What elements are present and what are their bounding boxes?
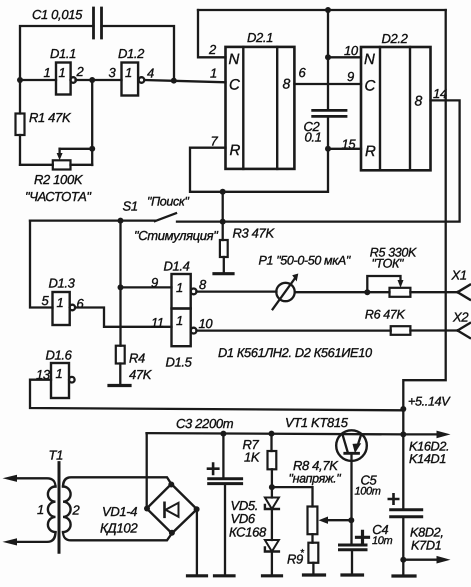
svg-text:1: 1 <box>44 65 51 80</box>
plus C3 <box>208 464 218 474</box>
node reset bus tap <box>220 189 226 195</box>
svg-text:3: 3 <box>109 65 117 80</box>
wire meter to R5 <box>295 291 390 293</box>
svg-text:9: 9 <box>151 275 158 290</box>
svg-text:VD1-4: VD1-4 <box>102 504 137 519</box>
svg-text:R2 100K: R2 100K <box>34 172 84 187</box>
svg-text:100m: 100m <box>355 486 381 498</box>
svg-text:9: 9 <box>347 69 354 84</box>
wire secondary top lead to bridge <box>63 477 171 486</box>
svg-text:47K: 47K <box>129 367 153 382</box>
node bridge right <box>194 506 200 512</box>
svg-text:1: 1 <box>59 65 66 80</box>
ground main <box>393 574 415 577</box>
svg-text:Р1 "50-0-50 мкА": Р1 "50-0-50 мкА" <box>259 254 351 268</box>
svg-text:1: 1 <box>37 502 44 517</box>
wire R7 node to R8 <box>272 487 313 506</box>
connector X1 <box>458 285 471 300</box>
resistor R4 <box>116 346 125 364</box>
wire primary bottom lead <box>12 532 56 542</box>
wire D1.5 out to R6 <box>197 329 391 331</box>
node R5 left junction <box>364 289 370 295</box>
capacitor C3 <box>222 434 224 478</box>
inverter D1.4 <box>172 274 191 309</box>
svg-text:R: R <box>230 142 241 159</box>
svg-text:"Поиск": "Поиск" <box>147 195 189 209</box>
wire S1 node down to R4 <box>119 221 121 346</box>
zener VD6 <box>265 540 279 552</box>
node ground out junction <box>400 557 406 563</box>
label C1 value <box>32 7 83 22</box>
svg-text:K14D1: K14D1 <box>409 452 446 466</box>
wire R1 bottom to R2 <box>20 164 92 166</box>
svg-text:D1.3: D1.3 <box>49 276 76 291</box>
capacitor C4 <box>340 545 367 550</box>
switch S1 <box>30 213 176 221</box>
node supply to bottom rail <box>400 406 406 412</box>
svg-text:КС168: КС168 <box>229 525 267 540</box>
svg-text:11: 11 <box>151 315 164 330</box>
node R1 top junction <box>17 77 23 83</box>
svg-text:1: 1 <box>56 366 63 381</box>
svg-text:1: 1 <box>176 313 183 328</box>
wire D1.3 input from S1 left <box>30 221 53 308</box>
wire N pin D2.2 <box>328 56 361 58</box>
resistor R1 <box>19 80 21 165</box>
wire pin9 input <box>121 286 172 288</box>
ground C4 <box>342 573 363 576</box>
wire emitter down <box>350 453 352 544</box>
inverter D1.2 <box>122 63 139 96</box>
node bridge left <box>144 506 150 512</box>
node C2 bottom junction <box>325 146 331 152</box>
svg-text:D1.5: D1.5 <box>166 355 193 370</box>
svg-text:2: 2 <box>72 503 81 518</box>
svg-text:*: * <box>300 548 305 559</box>
diode symbol inside bridge <box>163 503 166 517</box>
svg-text:10: 10 <box>199 316 214 331</box>
wire R5 wiper loop <box>367 276 400 292</box>
arrow supply out K16D2 <box>403 433 438 435</box>
resistor R9 <box>308 543 318 563</box>
wire R6 to X2 <box>410 329 457 331</box>
winding 2 secondary <box>63 487 71 533</box>
plus C5 <box>389 494 398 503</box>
svg-text:D1.6: D1.6 <box>46 348 73 363</box>
svg-text:1: 1 <box>176 280 183 295</box>
svg-text:2: 2 <box>208 42 217 57</box>
wire C5 to ground <box>402 517 404 575</box>
svg-text:1: 1 <box>125 65 132 80</box>
counter D2.1 <box>226 47 295 169</box>
svg-text:0.1: 0.1 <box>305 130 322 145</box>
wire pin14 output bus <box>177 100 460 221</box>
svg-text:1: 1 <box>57 295 64 310</box>
inverter D1.3 <box>53 292 70 325</box>
resistor R3 <box>220 240 228 257</box>
ground bridge <box>188 574 207 577</box>
svg-text:1: 1 <box>210 66 217 81</box>
svg-text:КД102: КД102 <box>100 521 138 536</box>
plus C4 <box>357 531 369 543</box>
meter P1 <box>276 283 294 301</box>
wire right supply rail <box>403 10 445 508</box>
wire D1.1 output to R2 wiper branch <box>91 80 93 165</box>
node pin9 branch <box>118 284 124 290</box>
wire R5 to X1 <box>410 291 457 293</box>
transformer T1 core <box>58 463 61 553</box>
node switch bus crossing <box>220 219 226 225</box>
resistor R6 <box>391 326 411 335</box>
wire secondary bottom lead to bridge <box>63 532 172 540</box>
connector X2 <box>458 323 471 338</box>
capacitor C5 <box>391 510 422 517</box>
wire bridge left up to rail <box>146 433 148 508</box>
node C3 top <box>220 431 226 437</box>
node R8 wiper to emitter line <box>348 517 354 523</box>
svg-text:D1.4: D1.4 <box>164 259 190 274</box>
wire reset tap down to R3 <box>222 192 224 240</box>
zener VD5 <box>271 487 273 497</box>
ground R9 <box>304 573 325 576</box>
resistor R7 <box>270 434 272 451</box>
svg-text:C: C <box>229 77 240 94</box>
potentiometer R8 <box>308 507 318 535</box>
svg-text:R6 47K: R6 47K <box>365 308 406 322</box>
transistor VT1 <box>336 430 367 461</box>
svg-text:"Стимуляция": "Стимуляция" <box>134 228 219 243</box>
svg-text:D2.1: D2.1 <box>247 30 273 45</box>
node bridge top <box>168 482 174 488</box>
arrow ground out K8D2 <box>403 559 438 561</box>
winding 1 primary <box>48 487 56 533</box>
counter D2.2 <box>361 47 431 170</box>
wire D1.3 out to pin11 <box>75 308 171 327</box>
svg-text:1K: 1K <box>244 450 261 465</box>
wire collector rail C3 <box>147 433 404 434</box>
svg-text:8: 8 <box>199 277 207 292</box>
svg-text:N: N <box>229 51 240 68</box>
svg-text:X2: X2 <box>452 310 469 325</box>
svg-text:D1.2: D1.2 <box>118 46 145 61</box>
wire D1.4 out to meter <box>197 290 277 292</box>
wire D1.6 input to bottom rail <box>30 380 403 411</box>
node R2 wiper junction <box>89 146 95 152</box>
wire R8 to R9 <box>311 534 313 543</box>
ground R3 <box>214 272 233 275</box>
svg-text:VT1 KT815: VT1 KT815 <box>285 415 349 430</box>
svg-text:10m: 10m <box>372 535 393 547</box>
node R7 top <box>269 431 275 437</box>
svg-text:5: 5 <box>42 293 50 308</box>
svg-text:K7D1: K7D1 <box>411 539 441 553</box>
svg-text:8: 8 <box>283 76 291 92</box>
node collector rail junction <box>400 431 406 437</box>
svg-text:R3 47K: R3 47K <box>233 226 276 241</box>
node N D2.2 junction <box>325 54 331 60</box>
wire D2.1 out pin6 to D2.2 pin9 <box>294 83 361 85</box>
svg-text:S1: S1 <box>123 199 138 214</box>
inverter D1.6 <box>51 363 69 398</box>
capacitor C2 <box>313 110 346 116</box>
svg-text:8: 8 <box>415 93 423 109</box>
label chips <box>218 345 373 360</box>
wire reset bus R pins <box>190 116 361 191</box>
node R7 bottom <box>269 484 275 490</box>
svg-text:+5..14V: +5..14V <box>408 395 451 409</box>
svg-text:10: 10 <box>344 43 359 58</box>
svg-text:2: 2 <box>76 64 85 79</box>
wire bridge right to ground <box>196 509 198 575</box>
ground C3 <box>215 574 235 577</box>
ground VD6 <box>263 574 282 577</box>
node D1.1 output junction <box>89 77 95 83</box>
potentiometer R2 <box>53 160 71 169</box>
wire N pin D2.1 <box>198 10 226 57</box>
svg-text:D1.1: D1.1 <box>50 46 76 61</box>
wire main oscillator line <box>20 80 226 82</box>
svg-text:R4: R4 <box>129 351 145 366</box>
svg-text:7: 7 <box>211 134 219 149</box>
svg-text:"ТОК": "ТОК" <box>372 257 404 271</box>
wire C1 top loop <box>20 26 174 81</box>
capacitor C1 <box>94 8 102 38</box>
svg-text:D2.2: D2.2 <box>382 31 409 46</box>
svg-text:4: 4 <box>147 66 154 81</box>
ground R4 <box>109 384 130 387</box>
svg-text:C1 0,015: C1 0,015 <box>32 7 83 22</box>
svg-text:K8D2,: K8D2, <box>410 526 444 540</box>
svg-text:C3 2200m: C3 2200m <box>176 416 234 431</box>
svg-text:X1: X1 <box>451 268 467 283</box>
inverter D1.5 <box>172 309 191 347</box>
potentiometer R5 <box>390 288 411 297</box>
wire primary top lead <box>12 478 56 486</box>
svg-text:6: 6 <box>77 296 85 311</box>
svg-text:T1: T1 <box>49 448 64 463</box>
svg-text:"напряж.": "напряж." <box>289 472 342 486</box>
svg-text:R: R <box>365 143 376 160</box>
node C1 right junction <box>171 78 177 84</box>
svg-text:N: N <box>364 51 375 68</box>
svg-text:6: 6 <box>299 65 307 80</box>
svg-text:R1 47K: R1 47K <box>29 110 72 125</box>
svg-text:"ЧАСТОТА": "ЧАСТОТА" <box>25 189 92 204</box>
svg-text:C: C <box>365 78 376 95</box>
wire C2 branch vertical <box>327 10 329 110</box>
svg-text:D1 К561ЛН2. D2 К561ИЕ10: D1 К561ЛН2. D2 К561ИЕ10 <box>218 345 373 360</box>
wiper R8 <box>327 519 351 521</box>
wiper R2 <box>58 149 60 156</box>
node bridge bottom <box>169 530 175 536</box>
inverter D1.1 <box>56 63 71 95</box>
node top rail C2 branch <box>325 7 331 13</box>
bridge VD1-4 <box>147 484 197 533</box>
wire top supply rail of D2 <box>198 9 446 11</box>
